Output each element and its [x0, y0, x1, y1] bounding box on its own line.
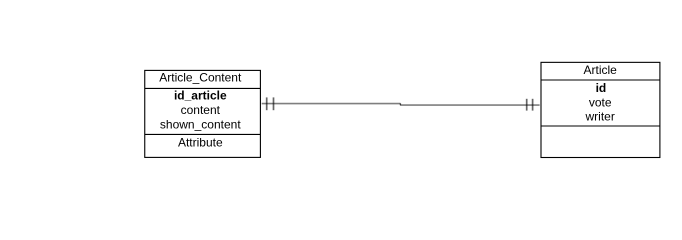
wire relationship right segment [400, 104, 540, 106]
svg-text:id_article: id_article [174, 89, 227, 103]
svg-text:Attribute: Attribute [178, 135, 223, 149]
attribute content [181, 103, 221, 117]
entity Article [541, 62, 660, 157]
entity Article_Content [145, 70, 261, 157]
svg-text:vote: vote [589, 96, 612, 110]
divider Article_Content header [145, 87, 261, 89]
label Attribute [178, 135, 223, 149]
attribute id_article [174, 89, 227, 103]
divider Article_Content attributes [145, 133, 261, 135]
attribute writer [585, 110, 615, 124]
divider Article header [541, 79, 660, 81]
svg-text:Article_Content: Article_Content [159, 70, 242, 84]
svg-text:writer: writer [585, 110, 615, 124]
attribute vote [589, 96, 612, 110]
svg-text:Article: Article [584, 63, 618, 77]
wire relationship left segment [262, 103, 401, 105]
junction wire bend [400, 103, 401, 104]
attribute id [596, 81, 607, 95]
cardinality one-and-only-one left [267, 97, 274, 110]
divider Article attributes [541, 125, 660, 127]
svg-text:id: id [596, 81, 607, 95]
cardinality one-and-only-one right [527, 99, 533, 111]
attribute shown_content [160, 117, 241, 131]
svg-text:content: content [181, 103, 221, 117]
label Article_Content [159, 70, 242, 84]
label Article [584, 63, 618, 77]
svg-text:shown_content: shown_content [160, 117, 241, 131]
